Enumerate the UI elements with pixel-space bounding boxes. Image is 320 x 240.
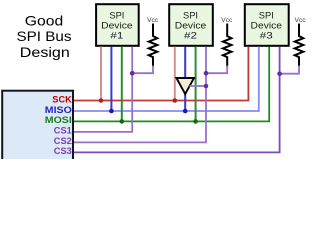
svg-text:Vcc: Vcc	[221, 17, 232, 24]
svg-text:Design: Design	[20, 44, 70, 60]
svg-text:Vcc: Vcc	[295, 17, 306, 24]
svg-text:MISO: MISO	[45, 105, 72, 115]
svg-text:Vcc: Vcc	[147, 17, 158, 24]
svg-text:SCK: SCK	[52, 94, 72, 104]
svg-text:#3: #3	[260, 31, 273, 42]
svg-text:Good: Good	[25, 12, 64, 28]
svg-text:MOSI: MOSI	[45, 115, 72, 125]
svg-text:#1: #1	[110, 31, 123, 42]
svg-text:CS1: CS1	[54, 126, 72, 136]
svg-text:#2: #2	[184, 31, 197, 42]
svg-text:CS3: CS3	[54, 146, 72, 156]
svg-text:SPI Bus: SPI Bus	[17, 28, 72, 44]
svg-text:CS2: CS2	[54, 136, 72, 146]
